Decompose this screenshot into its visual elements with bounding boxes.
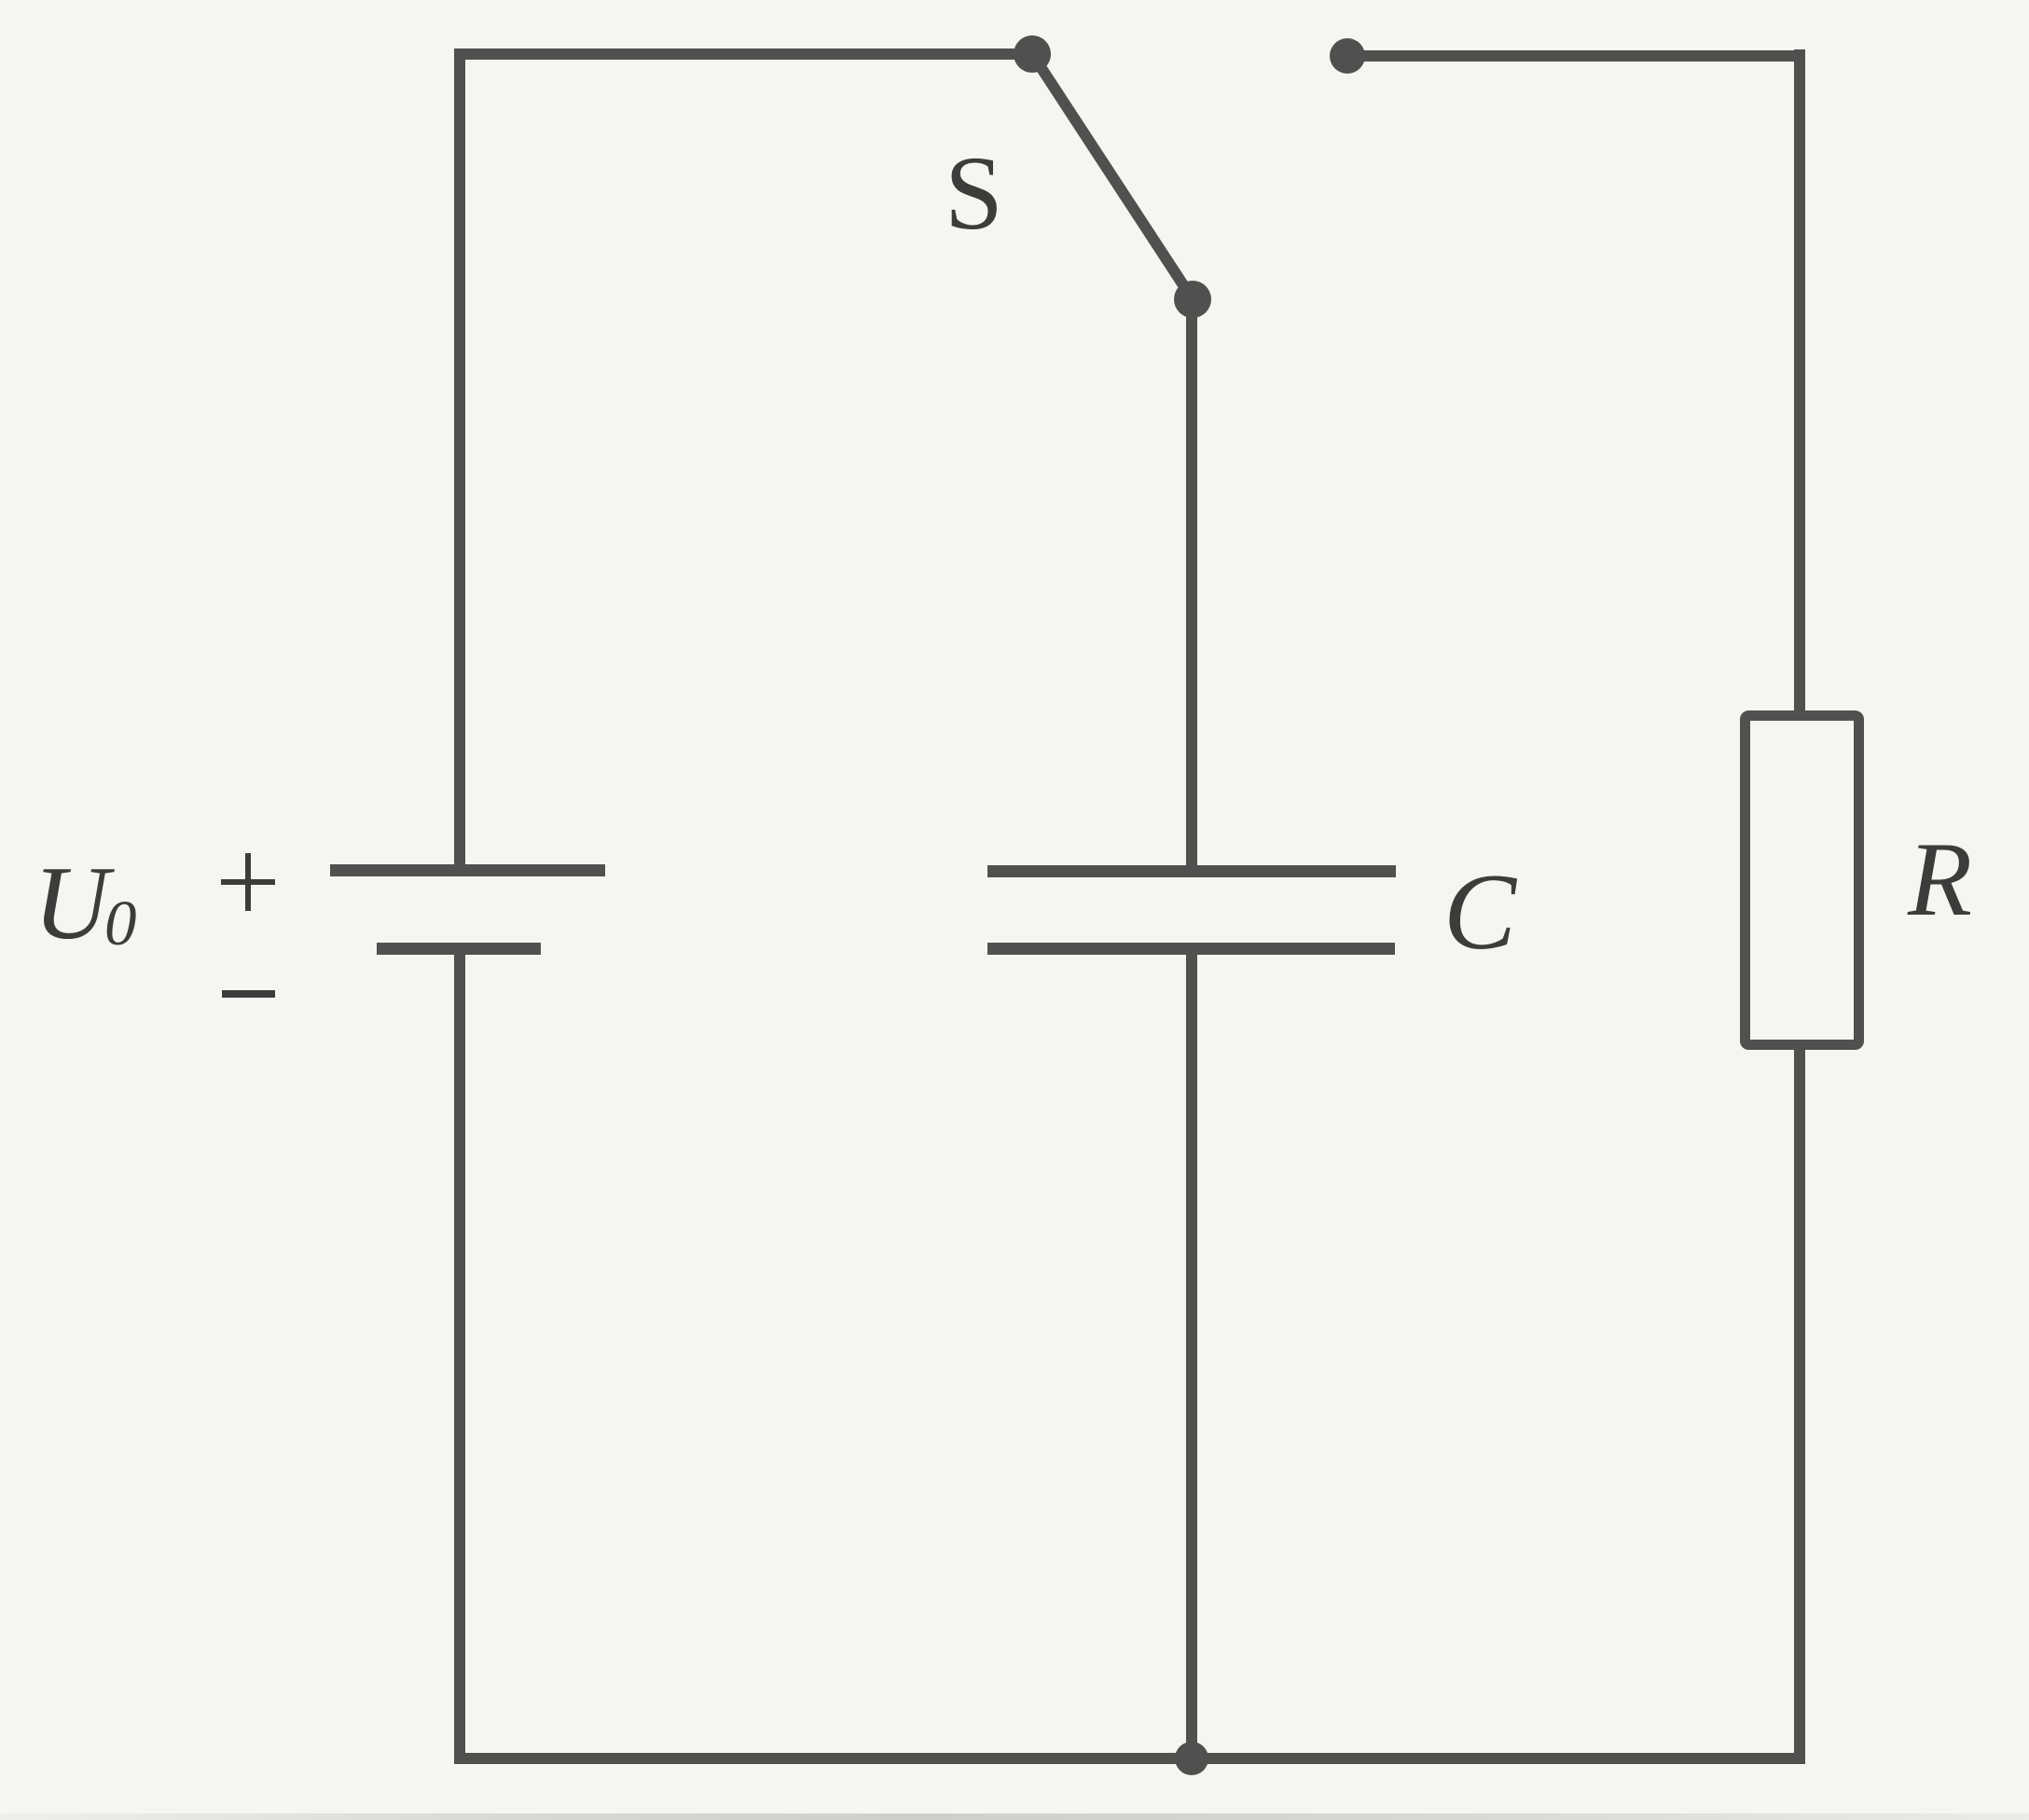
wire: left vertical lower (battery - down to bottom wire) (454, 951, 465, 1764)
capacitor C bottom plate (987, 943, 1395, 955)
plus sign of battery (221, 853, 275, 911)
svg-text:0: 0 (104, 888, 137, 958)
battery U0 negative plate (short) (377, 943, 541, 955)
wire: bottom horizontal (454, 1753, 1805, 1764)
wire: right vertical upper (top wire down to resistor) (1794, 49, 1805, 716)
svg-text:S: S (945, 135, 1003, 252)
wire: top-left horizontal from left branch to switch pole (454, 48, 1032, 60)
resistor R box (1746, 716, 1859, 1045)
wire: left vertical upper (battery + to top wire) (454, 48, 465, 867)
node: switch pole dot (1014, 35, 1051, 73)
minus sign of battery (222, 990, 275, 998)
svg-text:C: C (1443, 852, 1518, 972)
node: switch throw contact dot (1330, 38, 1365, 74)
wire: capacitor vertical upper (switch lower dot to top plate) (1186, 299, 1197, 869)
svg-text:R: R (1907, 821, 1972, 938)
svg-text:U: U (34, 846, 115, 961)
capacitor C top plate (987, 865, 1396, 877)
node: switch blade lower dot (1174, 281, 1211, 318)
wire: right vertical lower (resistor down to bottom wire) (1794, 1044, 1805, 1764)
switch S blade (1032, 54, 1193, 299)
wire: capacitor vertical lower (bottom plate to bottom wire) (1186, 951, 1197, 1758)
node: bottom junction dot (1175, 1742, 1208, 1775)
battery U0 positive plate (long) (330, 864, 605, 876)
wire: top-right horizontal from throw contact to right branch (1347, 50, 1805, 62)
